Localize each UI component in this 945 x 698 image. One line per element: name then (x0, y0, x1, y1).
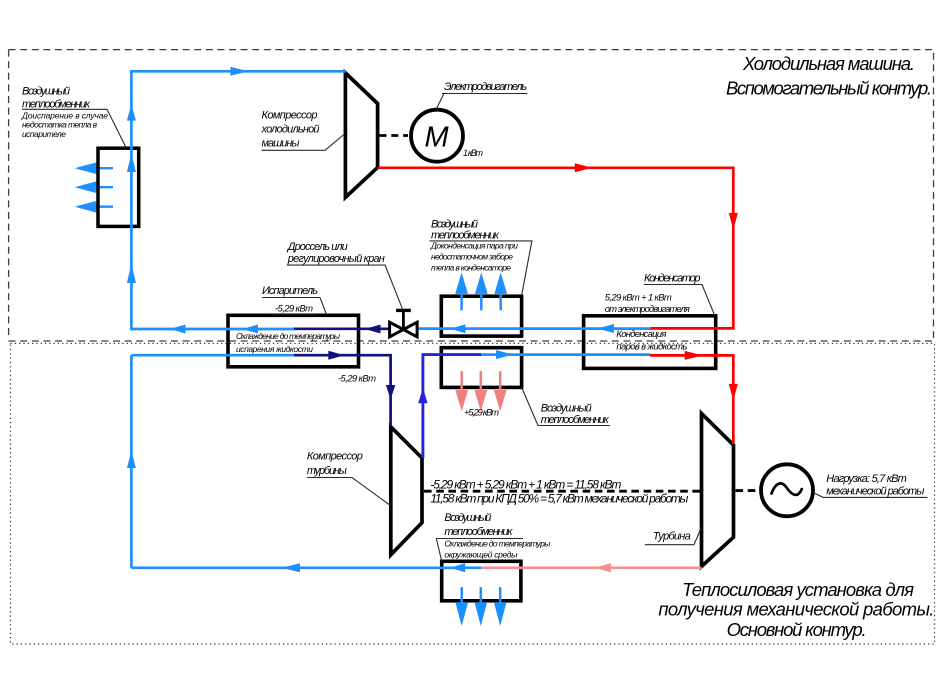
svg-text:паров в жидкость: паров в жидкость (616, 342, 687, 353)
shaft dashes turbine-compressor (424, 490, 700, 493)
svg-text:испарителе: испарителе (22, 129, 66, 139)
svg-text:Холодильная машина.: Холодильная машина. (742, 53, 915, 74)
svg-text:турбины: турбины (307, 465, 347, 477)
svg-text:Воздушный: Воздушный (541, 403, 592, 415)
shaft dashes turbine-generator (736, 489, 760, 492)
flow arrows blue (127, 67, 614, 573)
wire: navy segments (294, 329, 403, 426)
wire: blue loop of refrigeration circuit (131, 71, 650, 568)
svg-text:регулировочный кран: регулировочный кран (287, 253, 385, 265)
frame: main circuit dotted border (11, 343, 935, 644)
compressor of turbine (391, 427, 422, 555)
evaporator body (228, 315, 359, 367)
svg-text:Вспомогательный контур.: Вспомогательный контур. (726, 78, 932, 99)
throttle valve (390, 310, 418, 337)
flow arrows navy (328, 325, 395, 400)
svg-text:теплообменник: теплообменник (22, 98, 91, 110)
svg-text:получения механической работы.: получения механической работы. (658, 599, 934, 620)
svg-text:5,29 кВт + 1 кВт: 5,29 кВт + 1 кВт (605, 293, 672, 304)
svg-text:Охлаждение до температуры: Охлаждение до температуры (236, 331, 341, 341)
svg-text:-5,29 кВт: -5,29 кВт (275, 303, 313, 314)
shaft dashes motor (380, 134, 409, 137)
svg-text:Доконденсация пара при: Доконденсация пара при (430, 241, 518, 251)
svg-text:холодильной: холодильной (261, 124, 320, 136)
svg-text:Конденсация: Конденсация (616, 329, 666, 340)
air heat exchanger (middle upper) (441, 296, 521, 336)
svg-text:окружающей среды: окружающей среды (444, 550, 518, 560)
svg-text:Охлаждение до температуры: Охлаждение до температуры (444, 539, 551, 549)
load generator (761, 464, 813, 516)
wire: royal blue compressor output (423, 355, 481, 458)
heat arrows lower middle exchanger (pink) (457, 371, 505, 407)
turbine (702, 413, 734, 566)
svg-text:механической работы: механической работы (826, 485, 924, 497)
air heat exchanger (bottom) (442, 561, 521, 601)
svg-text:теплообменник: теплообменник (444, 526, 513, 538)
svg-text:Воздушный: Воздушный (444, 512, 491, 524)
wire: red hot gas line (378, 168, 734, 444)
heat arrows upper middle exchanger (457, 277, 506, 311)
svg-text:Воздушный: Воздушный (22, 85, 70, 97)
svg-text:Компрессор: Компрессор (307, 451, 363, 463)
air heat exchanger (top-left) (98, 148, 139, 226)
svg-text:Нагрузка: 5,7 кВт: Нагрузка: 5,7 кВт (826, 473, 907, 485)
svg-text:1 кВт: 1 кВт (463, 148, 484, 158)
svg-text:Испаритель: Испаритель (262, 285, 318, 297)
flow arrow pink (594, 563, 611, 572)
compressor of refrigeration machine (345, 73, 377, 197)
frame: separator dashed line (9, 340, 934, 342)
svg-text:M: M (425, 122, 450, 154)
svg-text:Теплосиловая установка для: Теплосиловая установка для (682, 579, 914, 600)
svg-text:теплообменник: теплообменник (541, 414, 610, 426)
electric motor M (411, 110, 463, 162)
svg-text:Электродвигатель: Электродвигатель (444, 81, 527, 93)
svg-text:Конденсатор: Конденсатор (644, 273, 701, 285)
svg-text:Компрессор: Компрессор (262, 109, 318, 121)
heat arrows bottom exchanger (457, 587, 505, 621)
svg-text:Основной контур.: Основной контур. (727, 619, 867, 640)
svg-text:тепла в конденсаторе: тепла в конденсаторе (431, 263, 511, 273)
svg-text:-5,29 кВт + 5,29 кВт + 1 кВт =: -5,29 кВт + 5,29 кВт + 1 кВт = 11,58 кВт (430, 477, 621, 491)
svg-text:Дроссель или: Дроссель или (286, 241, 348, 253)
flow arrows red (575, 163, 738, 400)
svg-text:Турбина: Турбина (653, 531, 691, 543)
svg-text:11,58 кВт при КПД 50% = 5,7 кВ: 11,58 кВт при КПД 50% = 5,7 кВт механиче… (430, 492, 688, 506)
heat exchanger arrows (left, under border) (79, 164, 113, 211)
svg-text:испарения жидкости: испарения жидкости (236, 344, 313, 354)
condenser body (584, 316, 716, 369)
flow arrow royal (418, 388, 427, 403)
svg-text:от электродвигателя: от электродвигателя (605, 304, 690, 315)
svg-text:-5,29 кВт: -5,29 кВт (338, 374, 376, 385)
leader lines (22, 94, 928, 562)
air heat exchanger (middle lower) (441, 348, 521, 388)
svg-text:недостаточном заборе: недостаточном заборе (431, 252, 513, 262)
svg-text:+5,29 кВт: +5,29 кВт (464, 408, 499, 419)
svg-text:машины: машины (262, 137, 300, 149)
wire: pink turbine exhaust (481, 566, 702, 569)
